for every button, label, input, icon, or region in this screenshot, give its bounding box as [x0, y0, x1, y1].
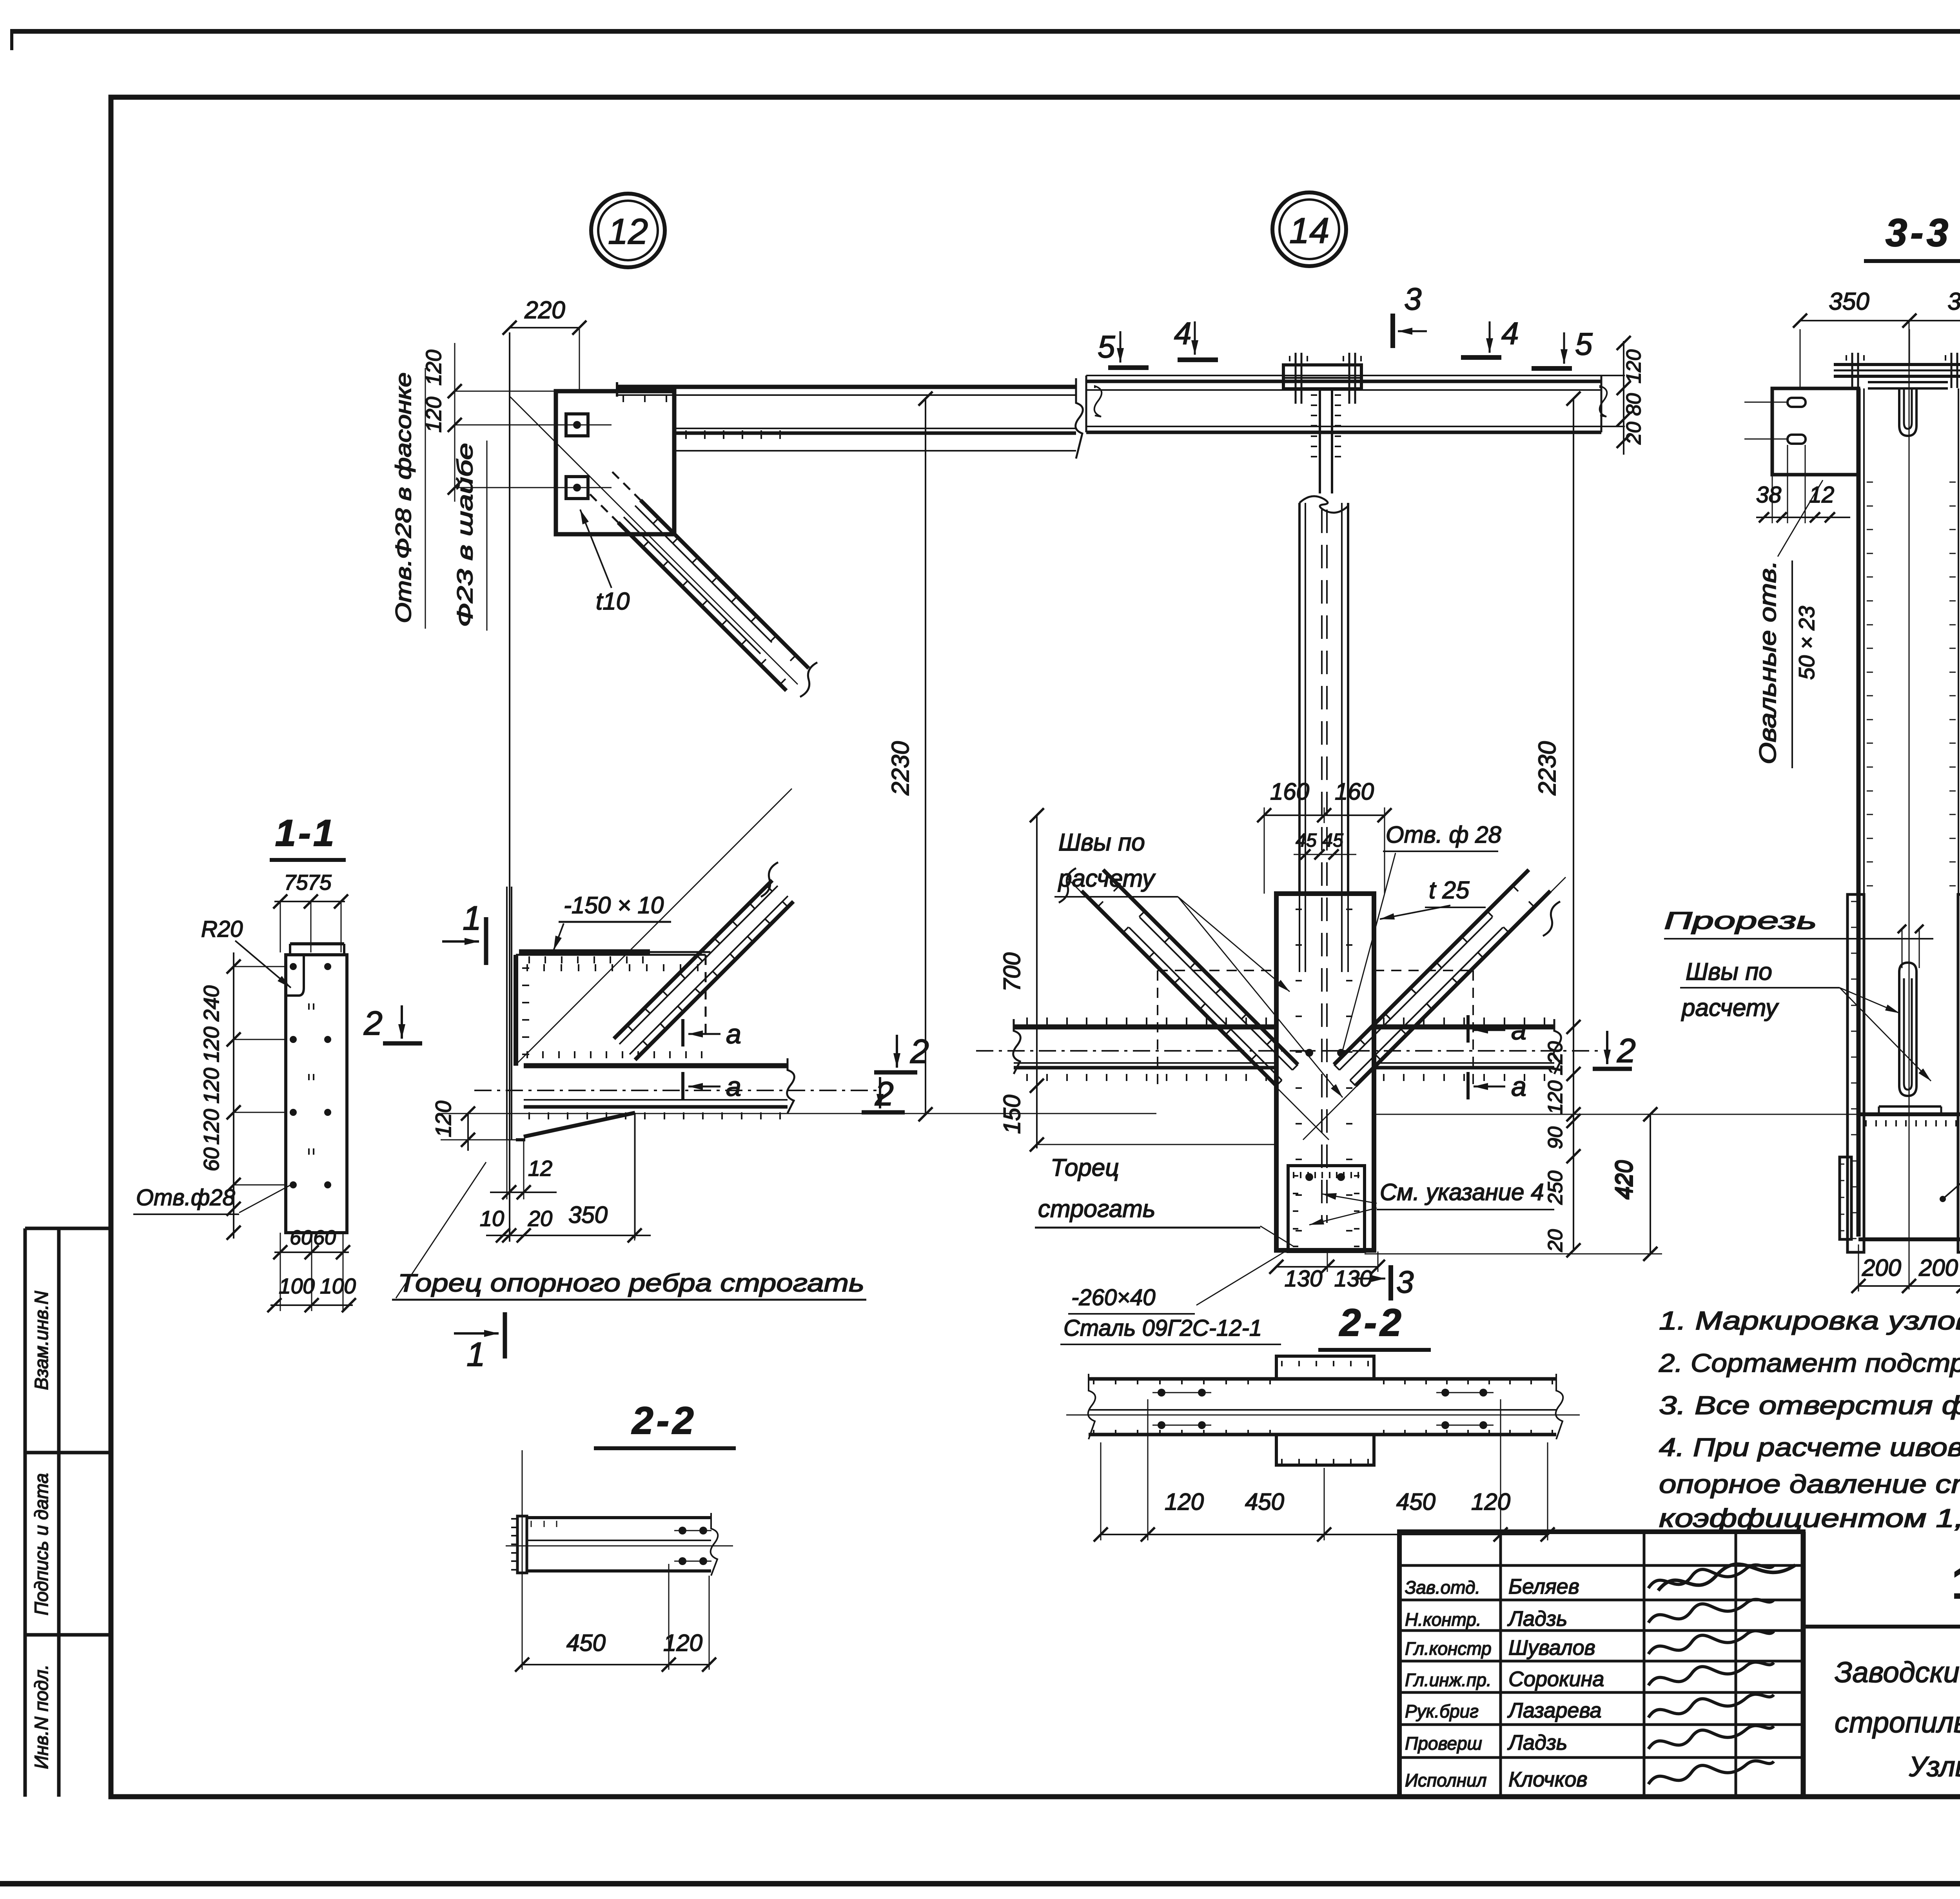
section marker 2 lower — [862, 1075, 905, 1113]
section 2-2 big bottom plate — [1094, 1430, 1552, 1465]
svg-text:2: 2 — [363, 1005, 383, 1042]
node 12 top chord beam — [617, 378, 1083, 459]
dim chain 120 80 20 — [1617, 336, 1645, 455]
svg-text:Исполнил: Исполнил — [1405, 1770, 1487, 1790]
label Otv f28 node14 — [1343, 822, 1501, 1050]
svg-text:расчету: расчету — [1058, 865, 1156, 892]
svg-text:Клочков: Клочков — [1508, 1768, 1588, 1791]
svg-text:120: 120 — [199, 1068, 223, 1104]
svg-text:1-1: 1-1 — [275, 812, 337, 854]
svg-text:3-3: 3-3 — [1886, 211, 1952, 255]
section 3-3 dims 38 12 — [1756, 445, 1850, 523]
section 2-2 small beam — [506, 1513, 733, 1576]
section 3-3 dim 420 — [1610, 1107, 1858, 1261]
svg-text:расчету: расчету — [1681, 994, 1779, 1021]
svg-text:120: 120 — [1471, 1489, 1510, 1515]
svg-text:Беляев: Беляев — [1508, 1575, 1579, 1598]
section 2-2 big dims — [1094, 1399, 1555, 1542]
svg-text:4: 4 — [1501, 316, 1519, 351]
section 2-2 small axis — [522, 1450, 523, 1670]
label t10 3-3 bottom — [1940, 1133, 1960, 1202]
section 2-2 big beam — [1066, 1374, 1580, 1439]
svg-text:20: 20 — [1544, 1229, 1567, 1252]
svg-text:2230: 2230 — [887, 741, 914, 796]
dimension 75 75 — [273, 870, 348, 952]
section 1-1 plate — [286, 944, 347, 1233]
node 12 weld ticks — [623, 395, 780, 439]
title block document number — [1952, 1557, 1960, 1608]
node 14 gusset — [1276, 894, 1374, 1250]
svg-text:200: 200 — [1862, 1255, 1901, 1281]
node 13 a-marker lower — [683, 1071, 741, 1102]
svg-text:160: 160 — [1335, 778, 1374, 805]
svg-text:Ладзь: Ладзь — [1507, 1731, 1567, 1754]
section marker 5 right — [1532, 326, 1593, 368]
svg-text:2230: 2230 — [1534, 741, 1561, 796]
dimension 220 — [503, 297, 586, 392]
section 2-2 small end plate — [511, 1516, 527, 1573]
node 14 left diagonal — [1059, 868, 1329, 1140]
svg-text:опорное давление стропильной: опорное давление стропильной фермы прини… — [1659, 1469, 1960, 1498]
extension line under node13 — [441, 1113, 1156, 1114]
node 14 splice plate — [1283, 353, 1361, 404]
svg-text:Шувалов: Шувалов — [1508, 1636, 1595, 1660]
section 3-3 dim 350 350 — [1793, 288, 1960, 388]
dims 130 130 — [1269, 1251, 1385, 1291]
svg-text:700: 700 — [999, 952, 1025, 992]
svg-text:a: a — [726, 1019, 741, 1049]
svg-text:Прорезь: Прорезь — [1664, 907, 1817, 934]
svg-text:Швы по: Швы по — [1686, 958, 1772, 985]
svg-text:160: 160 — [1270, 778, 1309, 805]
svg-text:90: 90 — [1544, 1126, 1567, 1149]
dimension 2230 left — [887, 392, 933, 1121]
section 3-3 support box — [1840, 1120, 1960, 1239]
section 3-3 left plank plate — [1744, 388, 1858, 475]
svg-text:75: 75 — [307, 870, 332, 894]
svg-text:a: a — [726, 1071, 741, 1102]
section 1-1 bolts — [290, 963, 331, 1188]
svg-text:12: 12 — [1809, 482, 1835, 508]
title block thick divider — [1801, 1532, 1806, 1797]
svg-text:a: a — [1511, 1071, 1526, 1102]
node 14 support table — [1288, 1166, 1365, 1251]
svg-text:12: 12 — [528, 1156, 552, 1181]
left box label Inv.N podl. — [31, 1664, 52, 1769]
section header 1-1 — [270, 812, 346, 860]
section 1-1 left dim chain — [199, 952, 286, 1240]
svg-text:Швы по: Швы по — [1058, 829, 1145, 856]
section marker 2 upper — [874, 1033, 929, 1072]
section marker 1 top — [442, 900, 486, 965]
svg-text:a: a — [1511, 1015, 1526, 1045]
svg-text:Ладзь: Ладзь — [1507, 1607, 1567, 1631]
left margin boxes — [25, 1228, 111, 1797]
label Sm ukazanie 4 — [1309, 1179, 1554, 1225]
svg-text:45: 45 — [1296, 830, 1317, 851]
svg-text:150: 150 — [999, 1095, 1025, 1134]
svg-text:120: 120 — [199, 1109, 223, 1145]
section 3-3 lower tee — [1879, 963, 1941, 1114]
svg-text:Овальные отв.: Овальные отв. — [1755, 560, 1781, 764]
svg-text:Узлы 12-14: Узлы 12-14 — [1909, 1751, 1960, 1783]
node14 dim 420 — [1365, 1107, 1664, 1261]
dimension 12 node13 — [490, 1140, 557, 1199]
svg-text:R20: R20 — [201, 916, 243, 942]
svg-text:1. Маркировка узлов приведен: 1. Маркировка узлов приведена на докум. … — [1659, 1306, 1960, 1335]
svg-text:100: 100 — [279, 1274, 315, 1298]
section 3-3 dims 200 200 — [1851, 1244, 1960, 1293]
svg-text:12: 12 — [608, 212, 648, 252]
title block lines — [1803, 1627, 1960, 1797]
svg-text:60: 60 — [199, 1147, 223, 1172]
label Otv.F28 v fasonke — [391, 368, 425, 629]
label torets strogat — [1035, 1154, 1294, 1246]
section 3-3 column — [1858, 388, 1960, 1237]
node 14 gusset bolts — [1305, 1049, 1345, 1181]
node 13 column edge lines — [507, 887, 512, 1140]
section 1-1 bottom dims — [267, 1226, 356, 1312]
svg-text:240: 240 — [199, 985, 223, 1022]
svg-text:120: 120 — [1544, 1041, 1567, 1076]
label Otv.f28 section 1-1 — [133, 1185, 290, 1214]
svg-text:220: 220 — [524, 297, 565, 324]
label -260x40 steel — [1060, 1252, 1284, 1344]
svg-text:-260×40: -260×40 — [1071, 1285, 1155, 1310]
section marker 1 bottom — [454, 1312, 505, 1373]
svg-text:350: 350 — [1947, 288, 1960, 315]
svg-text:-150 × 10: -150 × 10 — [564, 892, 664, 918]
svg-text:стропильных ферм.: стропильных ферм. — [1835, 1706, 1960, 1739]
svg-text:450: 450 — [1396, 1489, 1436, 1515]
section 2-2 big top plate — [1094, 1356, 1552, 1384]
node 12 axis line — [509, 332, 510, 1242]
label t25 — [1380, 877, 1486, 920]
title block description — [1835, 1656, 1960, 1783]
node 12 gusset plate — [556, 391, 674, 534]
label Ovalnye otv rotated — [1755, 480, 1823, 768]
title block signatures — [1648, 1564, 1795, 1784]
svg-text:t10: t10 — [596, 588, 630, 615]
node 14 a-marker upper — [1468, 1015, 1526, 1045]
svg-text:Гл.констр: Гл.констр — [1405, 1638, 1492, 1659]
svg-text:14: 14 — [1289, 211, 1329, 251]
svg-text:200: 200 — [1918, 1255, 1958, 1281]
dimension 120 node13 — [431, 1101, 516, 1151]
svg-text:2-2: 2-2 — [1339, 1301, 1405, 1344]
svg-text:38: 38 — [1756, 482, 1782, 508]
svg-text:450: 450 — [566, 1630, 606, 1656]
svg-text:45: 45 — [1322, 830, 1343, 851]
section 3-3 axis — [1909, 321, 1910, 1290]
svg-text:Торец опорного ребра строга: Торец опорного ребра строгать — [398, 1269, 864, 1297]
svg-text:Гл.инж.пр.: Гл.инж.пр. — [1405, 1670, 1492, 1690]
node 14 beam right part — [1374, 1018, 1561, 1081]
node 14 beam axis — [976, 1050, 1599, 1052]
label Prorez — [1664, 907, 1933, 968]
left box label Podpis i data — [31, 1473, 52, 1615]
node 14 gusset inner lines — [1296, 894, 1352, 1231]
svg-text:2: 2 — [1617, 1032, 1636, 1070]
washer extension lines — [448, 343, 566, 502]
svg-text:Инв.N подл.: Инв.N подл. — [31, 1664, 52, 1769]
svg-text:Рук.бриг: Рук.бриг — [1405, 1701, 1479, 1721]
sheet top border line — [11, 29, 1960, 50]
dims 160 160 — [1257, 778, 1392, 894]
section 3-3 lower planks — [1847, 894, 1960, 1252]
svg-text:t 25: t 25 — [1429, 877, 1470, 904]
svg-text:120: 120 — [1165, 1489, 1204, 1515]
section header 3-3 — [1864, 211, 1960, 261]
notes text — [1659, 1306, 1960, 1533]
svg-text:20: 20 — [1622, 422, 1645, 445]
svg-text:Сорокина: Сорокина — [1508, 1667, 1604, 1691]
section marker 3 top — [1393, 281, 1427, 348]
title block staff table — [1399, 1532, 1803, 1797]
node 13 beam — [474, 1058, 878, 1119]
svg-text:20: 20 — [528, 1206, 552, 1231]
node 14 top beam — [1086, 375, 1625, 432]
svg-text:250: 250 — [1544, 1171, 1567, 1205]
section 3-3 box bottom line — [1858, 1112, 1960, 1116]
node 14 a-marker lower — [1468, 1071, 1526, 1102]
svg-text:Заводские узлы под-: Заводские узлы под- — [1835, 1656, 1960, 1689]
label F23 v shaybe — [452, 441, 487, 631]
svg-text:Лазарева: Лазарева — [1507, 1699, 1602, 1722]
svg-text:коэффициентом 1,2.: коэффициентом 1,2. — [1659, 1504, 1960, 1533]
section marker 4 left — [1174, 316, 1218, 360]
svg-text:100: 100 — [320, 1274, 356, 1298]
svg-text:4: 4 — [1174, 316, 1192, 351]
svg-text:350: 350 — [1829, 288, 1869, 315]
section marker 2 left node13 — [363, 1005, 422, 1043]
section marker 3 bottom — [1357, 1264, 1414, 1300]
node mark circle 12 — [591, 194, 665, 267]
hole labels rotated — [421, 350, 446, 433]
svg-text:350: 350 — [568, 1202, 608, 1228]
section header 2-2 big — [1318, 1301, 1431, 1350]
node 13 top plate — [519, 952, 710, 963]
section marker 4 right — [1461, 316, 1519, 357]
left box label Vzam.inv.N — [31, 1291, 52, 1390]
node 14 column stem — [1299, 389, 1348, 894]
svg-text:Ф23 в шайбе: Ф23 в шайбе — [452, 443, 477, 627]
svg-text:120: 120 — [1544, 1081, 1567, 1115]
node14 left dims 700 150 — [999, 808, 1276, 1152]
node 12 washer bottom — [556, 477, 612, 499]
label Shvy po raschetu node14 — [1054, 829, 1343, 1097]
svg-text:450: 450 — [1245, 1489, 1284, 1515]
svg-text:5: 5 — [1575, 326, 1593, 361]
svg-text:2. Сортамент подстропильных: 2. Сортамент подстропильных ферм приведе… — [1659, 1348, 1960, 1377]
node 12 diagonal member — [510, 396, 817, 697]
svg-text:120: 120 — [431, 1101, 456, 1137]
node13 bottom dims — [480, 1113, 651, 1242]
label -150x10 — [554, 892, 671, 950]
node 13 gusset — [516, 955, 706, 1066]
svg-text:10: 10 — [480, 1206, 504, 1231]
svg-text:60: 60 — [290, 1226, 312, 1249]
section 2-2 small dims — [515, 1564, 716, 1672]
svg-text:Проверш: Проверш — [1405, 1733, 1482, 1754]
section marker 5 left — [1098, 329, 1149, 368]
label torets opornogo rebra strogat — [392, 1162, 866, 1300]
section 3-3 tee with slot — [1868, 382, 1948, 436]
label Shvy po raschetu 3-3 — [1680, 958, 1931, 1081]
section header 2-2 small — [594, 1399, 736, 1448]
svg-text:420: 420 — [1610, 1160, 1637, 1199]
svg-text:130: 130 — [1285, 1266, 1323, 1291]
svg-text:75: 75 — [284, 870, 308, 894]
node mark circle 14 — [1272, 192, 1346, 266]
node14 right dim chain texts — [1544, 1020, 1581, 1257]
svg-text:строгать: строгать — [1038, 1195, 1156, 1222]
dims 45 45 — [1294, 830, 1356, 860]
svg-text:Торец: Торец — [1051, 1154, 1119, 1181]
svg-text:120: 120 — [199, 1027, 223, 1063]
dimension 2230 right — [1534, 392, 1581, 1121]
label R20 — [201, 916, 291, 988]
svg-text:Подпись и дата: Подпись и дата — [31, 1473, 52, 1615]
svg-text:1: 1 — [466, 1336, 485, 1373]
node 14 right diagonal — [1303, 870, 1566, 1140]
node 12 washer top — [556, 414, 612, 436]
node 13 diagonal member — [516, 789, 793, 1065]
node 13 a-marker upper — [683, 1019, 741, 1049]
svg-text:4. При расчете швов креплен: 4. При расчете швов крепления опорного с… — [1659, 1433, 1960, 1462]
label t10 node 12 — [580, 510, 630, 615]
svg-text:Отв. ф 28: Отв. ф 28 — [1386, 822, 1501, 848]
svg-text:Зав.отд.: Зав.отд. — [1405, 1577, 1480, 1598]
title block staff names — [1405, 1575, 1604, 1791]
svg-text:Н.контр.: Н.контр. — [1405, 1609, 1481, 1630]
section 2-2 small bolts — [674, 1527, 711, 1565]
svg-text:1.450.3-21.1-41КМ: 1.450.3-21.1-41КМ — [1952, 1557, 1960, 1608]
svg-text:1: 1 — [463, 900, 481, 937]
node 13 rib wedge — [516, 1113, 635, 1239]
section marker 2 right node14 — [1593, 1031, 1636, 1070]
svg-text:3: 3 — [1396, 1264, 1414, 1299]
svg-text:Отв.Ф28 в фасонке: Отв.Ф28 в фасонке — [391, 372, 416, 623]
node 14 beam left part — [1013, 1018, 1276, 1081]
svg-text:Взам.инв.N: Взам.инв.N — [31, 1291, 52, 1390]
svg-text:3. Все отверстия ф 23, кром: 3. Все отверстия ф 23, кроме оговоренных… — [1659, 1391, 1960, 1420]
svg-text:Отв.ф28: Отв.ф28 — [136, 1185, 235, 1210]
svg-text:50 × 23: 50 × 23 — [1794, 606, 1819, 680]
svg-text:80: 80 — [1622, 393, 1645, 416]
section 1-1 weld marks — [309, 1003, 314, 1155]
svg-text:5: 5 — [1098, 329, 1115, 364]
svg-text:2-2: 2-2 — [631, 1399, 697, 1442]
svg-text:Сталь 09Г2С-12-1: Сталь 09Г2С-12-1 — [1063, 1315, 1262, 1341]
svg-text:3: 3 — [1404, 281, 1422, 316]
sheet bottom border line — [0, 1881, 1960, 1886]
section 3-3 top plates — [1834, 353, 1960, 388]
svg-text:См. указание 4: См. указание 4 — [1380, 1179, 1544, 1205]
svg-text:120: 120 — [1622, 350, 1645, 384]
section 2-2 big bolts — [1152, 1389, 1494, 1429]
